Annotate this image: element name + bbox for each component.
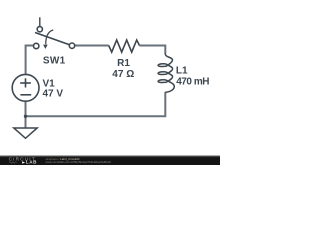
svg-text:LAB: LAB <box>26 160 37 165</box>
svg-text:L1: L1 <box>176 65 188 76</box>
svg-text:470 mH: 470 mH <box>176 76 209 87</box>
svg-text:SW1: SW1 <box>43 55 66 66</box>
svg-text:R1: R1 <box>117 58 130 69</box>
svg-text:47 Ω: 47 Ω <box>112 69 134 80</box>
svg-text:47 V: 47 V <box>43 89 64 100</box>
svg-text:www.circuitlab.com/c/56br5b4pw: www.circuitlab.com/c/56br5b4pw7b3e9dcq4w… <box>46 160 112 164</box>
